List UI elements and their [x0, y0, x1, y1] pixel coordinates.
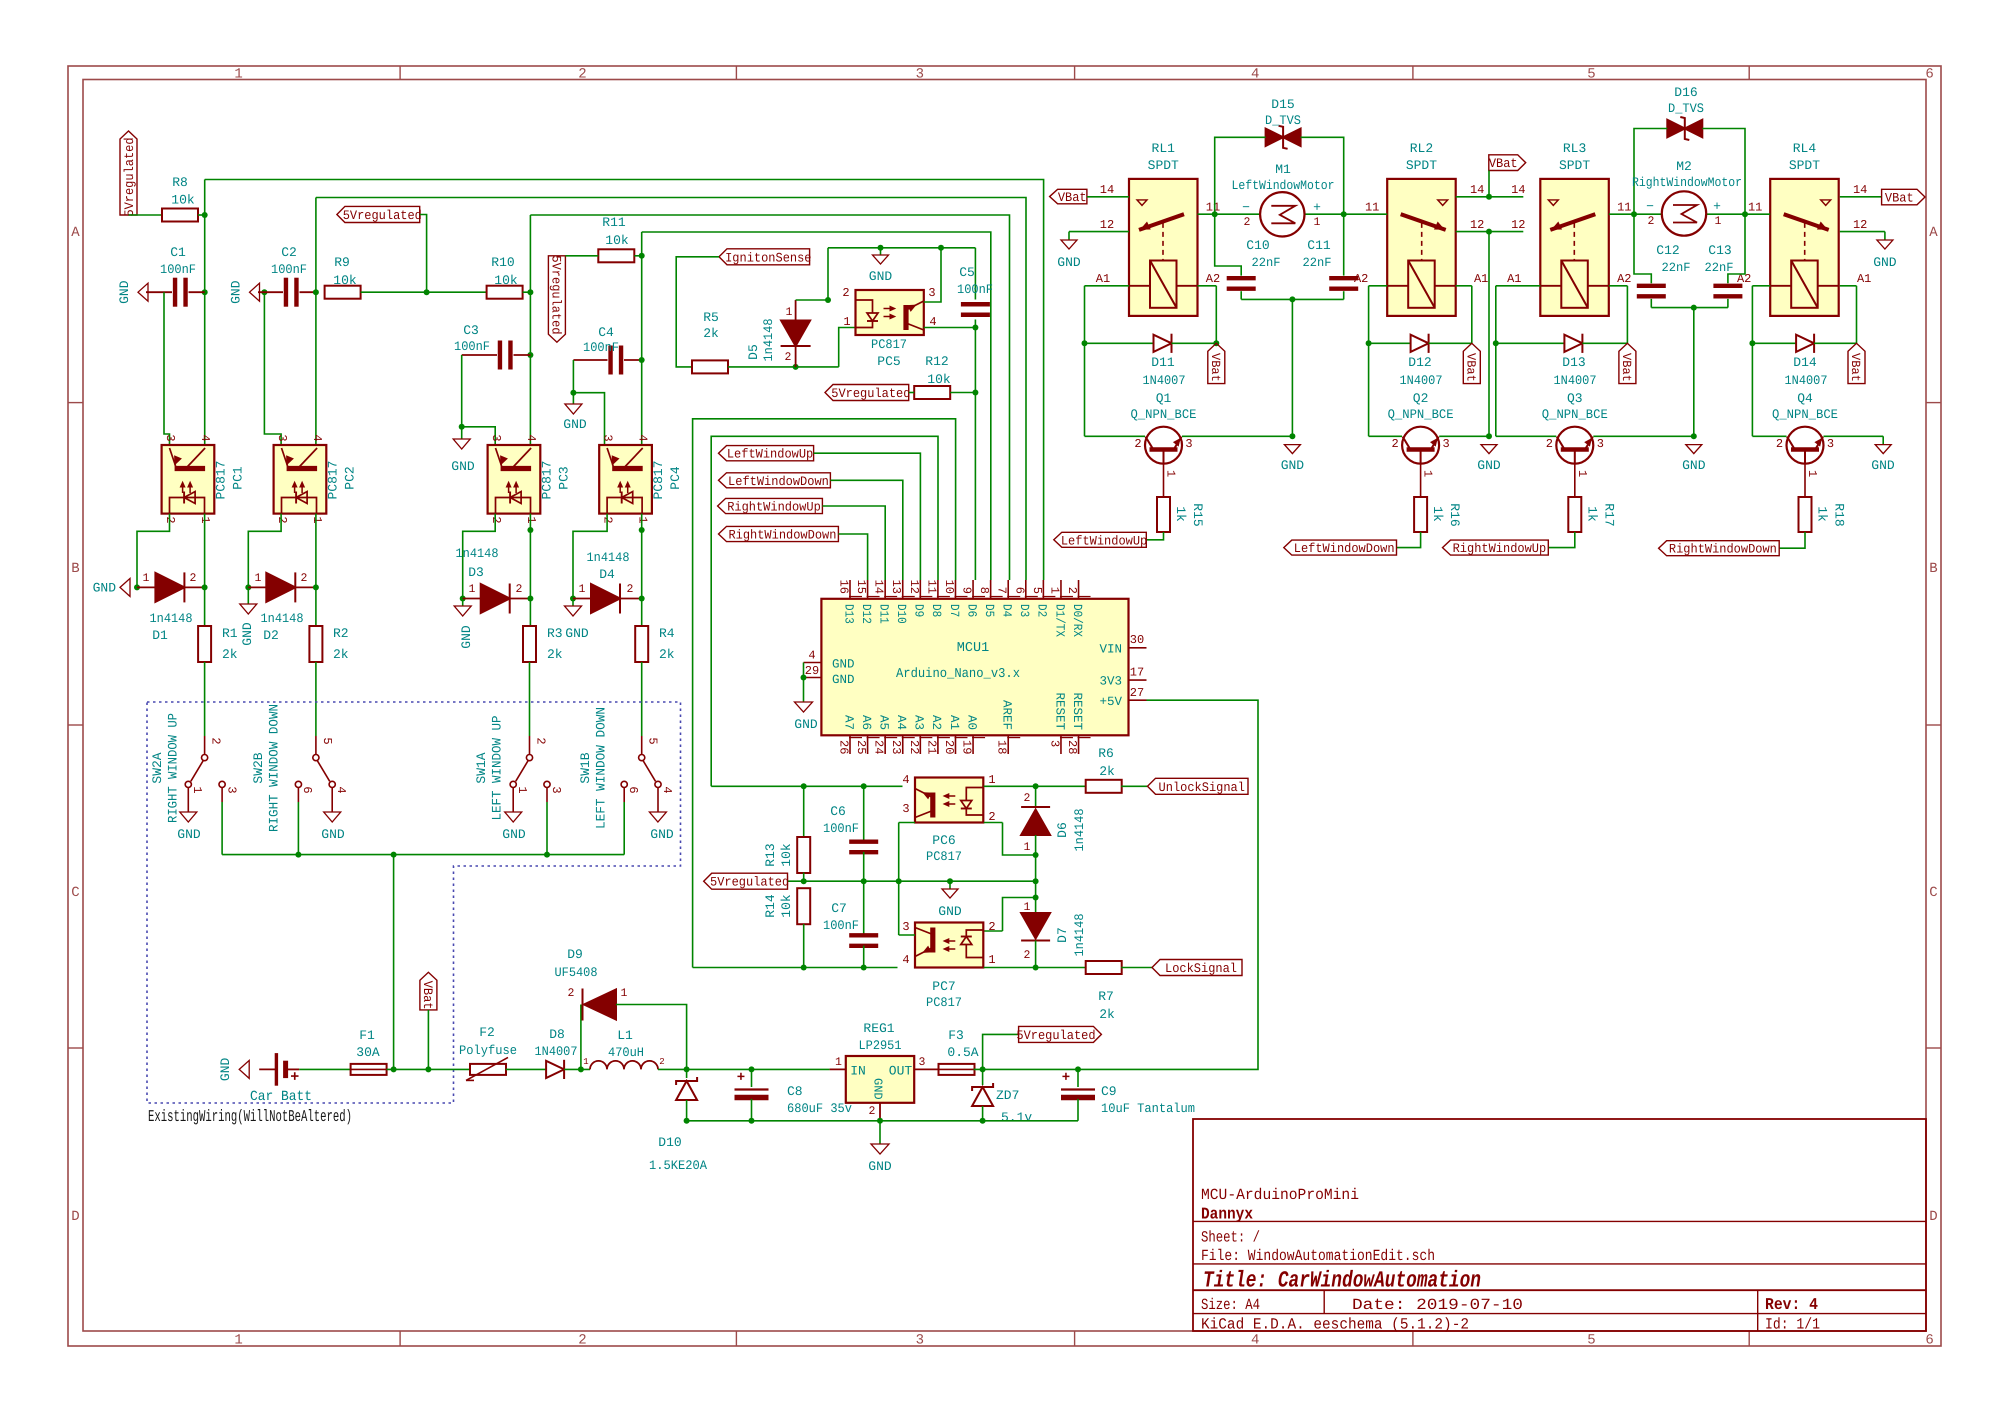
svg-text:14: 14 [872, 580, 886, 594]
svg-text:GND: GND [459, 625, 474, 649]
power symbol GND at Q2 [1477, 445, 1501, 473]
svg-text:3: 3 [163, 434, 177, 441]
SW1A pin labels and name [474, 715, 563, 820]
wire R16 to label [1397, 532, 1421, 548]
svg-text:4: 4 [310, 434, 324, 441]
svg-text:1n4148: 1n4148 [150, 611, 193, 626]
svg-text:2: 2 [1776, 437, 1783, 451]
svg-text:2: 2 [209, 737, 223, 744]
svg-text:22: 22 [907, 740, 921, 754]
junction C1 top [202, 289, 208, 295]
svg-text:R8: R8 [172, 175, 188, 190]
svg-text:3: 3 [1047, 740, 1061, 747]
junction D6 top [1033, 783, 1039, 789]
wire D column mid segment [1035, 881, 1037, 897]
svg-text:D7: D7 [1055, 927, 1070, 943]
svg-text:C8: C8 [787, 1084, 803, 1099]
svg-text:SW2B: SW2B [251, 752, 266, 783]
wire PC2 pin1 vertical [315, 514, 317, 625]
svg-text:D12: D12 [1408, 355, 1431, 370]
svg-text:GND: GND [1682, 458, 1706, 473]
wire UnlockSignal row [711, 785, 902, 787]
svg-text:2: 2 [1024, 792, 1031, 805]
fuse F2 (Polyfuse) [459, 1025, 517, 1080]
svg-text:24: 24 [872, 740, 886, 754]
junction pin12 gnd column [1486, 229, 1492, 235]
junction D3 anode [460, 596, 466, 602]
wire C1 left to PC1 pin3 [164, 292, 170, 445]
svg-text:3: 3 [916, 67, 924, 83]
wire R3 to SW1A [529, 662, 531, 736]
svg-text:D8: D8 [929, 604, 943, 617]
svg-text:4: 4 [334, 786, 348, 793]
wire pin12 gnd column down [1488, 232, 1490, 437]
svg-text:A: A [1929, 225, 1938, 241]
wire R17 to label [1548, 532, 1575, 548]
junction D10 rail [684, 1118, 690, 1124]
svg-text:4: 4 [902, 773, 909, 787]
power symbol GND at D4 [565, 599, 589, 642]
svg-text:2: 2 [842, 286, 849, 300]
svg-text:+: + [1713, 199, 1721, 214]
svg-text:A2: A2 [929, 715, 943, 730]
power flag VBat (RL1) [1050, 189, 1087, 205]
hierarchical label 5Vregulated (R13/R14) [704, 873, 790, 890]
wire R12 right [950, 392, 975, 394]
svg-text:GND: GND [177, 827, 201, 842]
wire 5Vregulated label down to R9-R10 net [420, 215, 427, 293]
wire pin4 column to R12 and MCU pin9 [974, 328, 976, 581]
power symbol GND at SW1A [502, 812, 526, 842]
junction L1 output [684, 1066, 690, 1072]
resistor R13 (10k) vertical [763, 786, 810, 881]
optocoupler PC6 (PC817) [902, 773, 995, 864]
power symbol GND at D1 [93, 578, 130, 596]
svg-text:17: 17 [1130, 666, 1144, 680]
svg-text:12: 12 [1853, 218, 1867, 232]
wire PC5 pin3 riser [924, 248, 941, 302]
svg-text:22nF: 22nF [1705, 261, 1734, 275]
svg-text:RightWindowDown: RightWindowDown [728, 528, 836, 543]
wire Q2 emitter [1439, 435, 1489, 437]
svg-text:1: 1 [835, 1056, 842, 1069]
optocoupler PC4 (PC817) [599, 434, 683, 523]
svg-text:21: 21 [924, 740, 938, 754]
wire F1 to F2 [387, 1068, 471, 1070]
resistor R15 (1k) [1157, 464, 1205, 532]
svg-text:10k: 10k [927, 372, 951, 387]
capacitor C2 (100nF) [258, 245, 316, 307]
svg-text:1N4007: 1N4007 [1400, 373, 1443, 388]
svg-text:SW1A: SW1A [474, 752, 489, 783]
svg-text:GND: GND [240, 622, 255, 646]
wire PC3 pin2 to D3 [463, 514, 496, 599]
svg-text:GND: GND [218, 1058, 233, 1082]
junction M2 left [1631, 211, 1637, 217]
switch SW1A (LEFT WINDOW UP) [510, 736, 550, 812]
svg-text:GND: GND [650, 827, 674, 842]
svg-text:Q2: Q2 [1413, 391, 1429, 406]
wire F3 to C9 [974, 1068, 1078, 1070]
power symbol GND at SW2B [321, 812, 345, 842]
svg-text:AREF: AREF [1000, 700, 1014, 730]
wire RL3 pin11 to M2 [1609, 213, 1662, 215]
svg-text:SW1B: SW1B [578, 752, 593, 783]
svg-text:+: + [737, 1070, 745, 1086]
power symbol GND at C2 [229, 280, 260, 304]
svg-text:IgnitonSense: IgnitonSense [725, 250, 811, 265]
junction gnd row tap [947, 878, 953, 884]
transistor Q4 (Q_NPN_BCE) [1772, 391, 1838, 477]
svg-text:10k: 10k [494, 273, 518, 288]
svg-text:GND: GND [502, 827, 526, 842]
svg-text:2k: 2k [222, 647, 238, 662]
svg-text:Car Batt: Car Batt [250, 1089, 312, 1105]
wire PC4 pin2 to D4 [573, 514, 607, 599]
svg-text:GND: GND [1873, 255, 1897, 270]
diode D11 (1N4007) [1085, 334, 1217, 388]
junction gnd row at GND symbol [878, 245, 884, 251]
svg-text:1n4148: 1n4148 [456, 546, 499, 561]
wire D8 to L1 [564, 1068, 590, 1070]
svg-text:6: 6 [1925, 67, 1933, 83]
svg-text:SPDT: SPDT [1789, 158, 1820, 173]
svg-text:F3: F3 [948, 1028, 964, 1043]
svg-text:KiCad E.D.A. eeschema (5.1.2): KiCad E.D.A. eeschema (5.1.2)-2 [1201, 1316, 1469, 1334]
svg-text:22nF: 22nF [1662, 261, 1691, 275]
relay RL2 (SPDT) [1354, 141, 1488, 316]
wire Q3 emitter [1593, 435, 1694, 437]
svg-text:29: 29 [805, 664, 819, 678]
SW1B pin labels and name [578, 707, 674, 829]
svg-text:14: 14 [1100, 183, 1114, 197]
power symbol GND at RL1 pin12 [1057, 232, 1081, 270]
svg-text:2: 2 [785, 351, 792, 364]
optocoupler PC2 (PC817) [274, 434, 358, 523]
svg-text:RESET: RESET [1070, 692, 1084, 730]
svg-text:SPDT: SPDT [1559, 158, 1590, 173]
wire M2 right to RL4 pin11 [1706, 213, 1770, 215]
wire PC2 pin2 to D2 [248, 514, 281, 588]
svg-text:GND: GND [794, 717, 818, 732]
svg-text:C12: C12 [1656, 243, 1679, 258]
junction R10/C3 column top [527, 289, 533, 295]
svg-text:D5: D5 [746, 344, 761, 360]
svg-text:D4: D4 [1000, 604, 1014, 617]
svg-text:2: 2 [1244, 216, 1251, 229]
junction D11 cathode / VBat [1213, 340, 1219, 346]
power symbol GND at Q3 [1682, 445, 1706, 473]
svg-text:3: 3 [1442, 437, 1449, 451]
svg-text:3: 3 [549, 786, 563, 793]
wire RL4 A1 down [1840, 286, 1857, 344]
junction D3 cathode [527, 596, 533, 602]
diode D4 (1n4148) [573, 550, 642, 614]
wire R8 right to junction [198, 214, 205, 216]
fuse F3 (0.5A) [939, 1028, 979, 1075]
relay RL4 (SPDT) [1737, 141, 1871, 316]
svg-text:RightWindowUp: RightWindowUp [727, 500, 821, 515]
svg-text:D2: D2 [263, 628, 279, 643]
svg-text:5: 5 [1587, 67, 1595, 83]
svg-text:D13: D13 [841, 604, 855, 624]
svg-text:Q4: Q4 [1797, 391, 1813, 406]
hierarchical label LeftWindowUp (Q1) [1054, 532, 1147, 548]
junction 5Vregulated drop [424, 289, 430, 295]
junction C8 top [749, 1066, 755, 1072]
svg-text:4: 4 [660, 786, 674, 793]
svg-text:3: 3 [902, 920, 909, 934]
transistor Q2 (Q_NPN_BCE) [1388, 391, 1454, 477]
svg-text:2: 2 [578, 1333, 586, 1349]
capacitor C7 (100nF) [823, 881, 878, 967]
svg-text:C2: C2 [281, 245, 297, 260]
capacitor C12 (22nF) [1634, 214, 1691, 307]
junction D5 cathode [793, 364, 799, 370]
svg-text:8: 8 [977, 587, 991, 594]
svg-text:Q_NPN_BCE: Q_NPN_BCE [1131, 407, 1197, 422]
svg-text:R9: R9 [334, 255, 350, 270]
junction D column mid [1033, 878, 1039, 884]
svg-text:A1: A1 [1096, 272, 1110, 286]
SW2B pin labels and name [251, 704, 348, 832]
wire RightWindowUp to pin14 [822, 506, 885, 580]
svg-text:Dannyx: Dannyx [1201, 1205, 1253, 1224]
svg-text:4: 4 [524, 434, 538, 441]
svg-text:GND: GND [1057, 255, 1081, 270]
svg-text:UF5408: UF5408 [555, 965, 598, 980]
svg-text:12: 12 [1511, 218, 1525, 232]
svg-text:12: 12 [907, 580, 921, 594]
wire bus down to battery positive [393, 855, 395, 1070]
svg-text:A5: A5 [876, 715, 890, 730]
wire Q4 collector [1752, 435, 1786, 437]
svg-text:Q_NPN_BCE: Q_NPN_BCE [1388, 407, 1454, 422]
svg-text:C4: C4 [598, 325, 614, 340]
junction C7 bottom [861, 965, 867, 971]
svg-text:3: 3 [601, 434, 615, 441]
svg-text:1: 1 [190, 786, 204, 793]
svg-text:D9: D9 [912, 604, 926, 617]
wire R7 to LockSignal [1121, 967, 1152, 969]
svg-text:5.1v: 5.1v [1001, 1110, 1032, 1125]
hierarchical label LeftWindowDown (MCU) [719, 473, 831, 489]
svg-text:5Vregulated: 5Vregulated [710, 875, 789, 890]
svg-text:LeftWindowMotor: LeftWindowMotor [1232, 178, 1335, 193]
junction C8 rail [749, 1118, 755, 1124]
svg-text:5Vregulated: 5Vregulated [831, 386, 910, 401]
svg-text:1: 1 [988, 773, 995, 787]
wire LockSignal row [693, 967, 1087, 969]
svg-text:30A: 30A [356, 1045, 380, 1060]
MCU1 top pin stubs and numbers [837, 580, 1091, 638]
svg-text:A1: A1 [1474, 272, 1488, 286]
svg-text:Sheet: /: Sheet: / [1201, 1229, 1260, 1247]
svg-text:R5: R5 [703, 310, 719, 325]
svg-text:GND: GND [871, 1078, 885, 1100]
resistor R8 [162, 175, 198, 222]
svg-text:100nF: 100nF [823, 918, 859, 933]
svg-text:1n4148: 1n4148 [1072, 809, 1087, 852]
svg-text:1: 1 [1715, 215, 1722, 228]
svg-text:2k: 2k [547, 647, 563, 662]
svg-text:LeftWindowDown: LeftWindowDown [728, 474, 829, 489]
wire MCU gnd pins [803, 663, 805, 703]
svg-text:R16: R16 [1447, 503, 1462, 526]
svg-text:RL4: RL4 [1793, 141, 1817, 156]
svg-text:SPDT: SPDT [1406, 158, 1437, 173]
svg-text:5: 5 [320, 737, 334, 744]
wire D6 anode to gnd row [1035, 855, 1037, 881]
junction C2 right / R9 [313, 289, 319, 295]
svg-text:LEFT WINDOW UP: LEFT WINDOW UP [490, 715, 505, 820]
svg-text:D13: D13 [1562, 355, 1585, 370]
svg-text:2: 2 [1065, 587, 1079, 594]
switch SW2B (RIGHT WINDOW DOWN) [295, 736, 335, 812]
junction D1 cathode [202, 584, 208, 590]
svg-text:2k: 2k [659, 647, 675, 662]
svg-text:1: 1 [843, 315, 850, 329]
junction D9 branch left [578, 1066, 584, 1072]
svg-text:A0: A0 [964, 715, 978, 730]
svg-text:2: 2 [568, 987, 575, 1000]
wire switch common bus [222, 802, 624, 855]
title block [1193, 1119, 1926, 1334]
resistor R17 (1k) [1568, 464, 1616, 532]
junction C6 top [861, 783, 867, 789]
svg-text:6: 6 [626, 786, 640, 793]
svg-text:22nF: 22nF [1252, 256, 1281, 270]
svg-text:680uF 35v: 680uF 35v [787, 1101, 852, 1116]
junction MCU gnd [801, 675, 807, 681]
switch SW1B (LEFT WINDOW DOWN) [621, 736, 661, 812]
wire RightWindowDown to pin15 [838, 534, 867, 580]
wire PC6 pin1 to R6 [984, 785, 1086, 787]
wire R2 to SW2B [315, 662, 317, 736]
power flag VBat (RL4) [1882, 189, 1925, 205]
junction M1 cap rail [1289, 296, 1295, 302]
svg-text:5: 5 [646, 737, 660, 744]
svg-text:C7: C7 [831, 901, 847, 916]
wire R4 to SW1B [641, 662, 643, 736]
svg-text:ExistingWiring(WillNotBeAltere: ExistingWiring(WillNotBeAltered) [148, 1107, 352, 1126]
junction R14 bottom [801, 965, 807, 971]
power flag VBat (battery) [420, 972, 437, 1069]
wire C4 left to GND / PC4 pin3 [572, 360, 574, 393]
svg-text:D5: D5 [982, 604, 996, 617]
junction D7 anode [1033, 895, 1039, 901]
hierarchical label RightWindowUp (MCU) [718, 498, 823, 514]
svg-text:Date: 2019-07-10: Date: 2019-07-10 [1352, 1296, 1523, 1314]
power symbol GND at D2 [240, 587, 257, 645]
svg-text:3: 3 [916, 1333, 924, 1349]
svg-text:LeftWindowUp: LeftWindowUp [727, 447, 813, 462]
svg-text:F2: F2 [479, 1025, 495, 1040]
svg-text:1: 1 [1805, 470, 1819, 477]
optocoupler PC3 (PC817) [488, 434, 572, 523]
svg-text:GND: GND [229, 280, 244, 304]
svg-text:LeftWindowDown: LeftWindowDown [1294, 541, 1395, 556]
svg-text:30: 30 [1130, 633, 1144, 647]
svg-text:15: 15 [854, 580, 868, 594]
svg-text:1: 1 [143, 572, 150, 585]
wire gnd row above PC5 [828, 247, 975, 249]
SW2A pin labels and name [150, 713, 239, 823]
junction C4 right [639, 357, 645, 363]
power symbol GND mid [938, 881, 962, 919]
svg-text:1: 1 [234, 67, 242, 83]
power flag VBat (RL2/RL3) [1489, 155, 1526, 197]
svg-text:PC3: PC3 [557, 466, 572, 489]
svg-text:D15: D15 [1271, 97, 1294, 112]
hierarchical label 5Vregulated (output) [1016, 1026, 1101, 1043]
svg-text:11: 11 [1365, 201, 1379, 215]
hierarchical label RightWindowUp (Q3) [1443, 540, 1549, 556]
resistor R9 [325, 255, 361, 299]
power symbol GND at C1 [117, 280, 148, 304]
svg-text:R11: R11 [602, 215, 626, 230]
svg-text:C10: C10 [1246, 238, 1269, 253]
junction C3 right [527, 352, 533, 358]
svg-text:Q_NPN_BCE: Q_NPN_BCE [1772, 407, 1838, 422]
dashed box ExistingWiring [147, 702, 681, 1103]
svg-text:M1: M1 [1275, 162, 1291, 177]
svg-text:GND: GND [117, 280, 132, 304]
svg-text:100nF: 100nF [160, 262, 196, 277]
svg-text:1: 1 [1314, 216, 1321, 229]
battery BT (Car Batt) [250, 1053, 312, 1105]
svg-text:PC817: PC817 [926, 995, 962, 1010]
power symbol GND at SW1B [649, 812, 673, 842]
fuse F1 (30A) [351, 1028, 387, 1075]
svg-text:D16: D16 [1674, 85, 1697, 100]
wire net pin8 row [642, 232, 991, 580]
junction D2 cathode [313, 584, 319, 590]
wire RL4 pin12 to GND [1840, 231, 1885, 233]
svg-text:R17: R17 [1601, 503, 1616, 526]
wire Q4 emitter [1824, 435, 1884, 437]
svg-text:1: 1 [255, 572, 262, 585]
junction C6/C7 [861, 878, 867, 884]
svg-text:1k: 1k [1430, 506, 1445, 522]
junction M1 right [1341, 211, 1347, 217]
svg-text:GND: GND [321, 827, 345, 842]
svg-text:1: 1 [1164, 470, 1178, 477]
svg-text:3: 3 [225, 786, 239, 793]
power flag VBat (D14) [1848, 343, 1865, 383]
svg-text:Id: 1/1: Id: 1/1 [1765, 1316, 1820, 1334]
hierarchical label 5Vregulated (near R9) [337, 206, 422, 223]
svg-text:GND: GND [93, 581, 117, 596]
svg-text:1: 1 [234, 1333, 242, 1349]
svg-text:PC7: PC7 [932, 979, 955, 994]
svg-text:D1: D1 [152, 628, 168, 643]
resistor R1 (2k) [198, 626, 238, 662]
wire 5Vregulated to R11 [565, 255, 598, 257]
svg-text:D11: D11 [1151, 355, 1175, 370]
svg-text:11: 11 [1748, 201, 1762, 215]
svg-text:4: 4 [808, 649, 815, 663]
svg-text:VIN: VIN [1099, 642, 1122, 656]
svg-text:−: − [1646, 199, 1654, 214]
svg-text:PC817: PC817 [871, 337, 907, 352]
wire M1 right to RL2 pin11 [1305, 213, 1387, 215]
svg-text:Size: A4: Size: A4 [1201, 1296, 1260, 1314]
svg-text:VBat: VBat [420, 981, 435, 1010]
wire Q1 emitter [1182, 435, 1292, 437]
svg-text:C13: C13 [1708, 243, 1731, 258]
junction ZD7 rail [980, 1118, 986, 1124]
